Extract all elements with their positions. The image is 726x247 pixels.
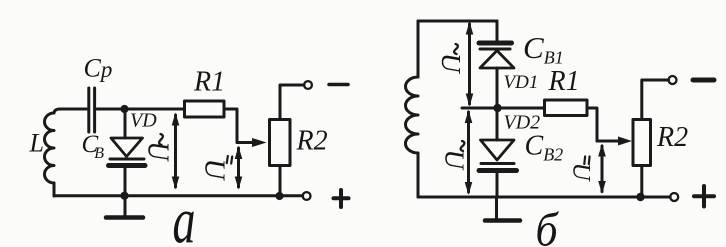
terminal plus (a): [303, 192, 311, 200]
wire R1 to wiper (b): [587, 108, 597, 141]
wire R2 top to minus terminal: [280, 85, 304, 120]
svg-text:U: U: [199, 159, 231, 182]
varicap VD1 / CB1 : top wire: [496, 21, 499, 41]
annotation arrow U= (b): [598, 144, 606, 195]
wire R2 top to minus terminal (b): [642, 80, 669, 120]
svg-text:Cp: Cp: [84, 54, 113, 83]
bottom rail (a): [54, 194, 303, 197]
plus sign (b): [694, 186, 714, 207]
svg-text:CВ2: CВ2: [525, 131, 564, 165]
wire R2 bottom to rail (b): [640, 166, 643, 198]
wire coil bottom to rail (b): [417, 153, 420, 197]
minus sign (b): [693, 78, 714, 83]
terminal minus (b): [669, 76, 677, 84]
bottom rail (b): [418, 196, 670, 199]
annotation arrow U~ (a): [172, 113, 180, 190]
svg-text:R1: R1: [548, 66, 580, 97]
terminal plus (b): [670, 193, 678, 201]
wire VD1 to node to VD2: [496, 68, 499, 140]
annotation arrow U~ upper (b): [466, 22, 474, 107]
potentiometer R2 (b): [633, 120, 651, 166]
annotation arrow U~ lower (b): [465, 110, 473, 195]
inductor (b): [405, 77, 418, 153]
label U~ (a): [141, 134, 174, 163]
svg-text:VD: VD: [130, 110, 157, 132]
resistor R1 (a): [185, 101, 225, 117]
varicap VD1 cathode bar: [480, 48, 510, 51]
node junction dot: [120, 105, 128, 113]
annotation arrow U= (a): [235, 146, 243, 190]
wire coil-top to Cp: [59, 108, 86, 111]
resistor R1 (b): [545, 100, 588, 116]
svg-text:U: U: [568, 163, 595, 183]
svg-text:L: L: [29, 129, 44, 158]
varicap VD / CB : anode wire: [124, 109, 127, 138]
left wire down to coil (b): [417, 21, 420, 77]
wire Cp to R1 (top node wire): [97, 108, 185, 111]
wiper arrow into R2 (a): [237, 138, 267, 147]
wire VD2 to rail: [496, 173, 499, 198]
potentiometer R2 (a): [270, 120, 291, 166]
top wire (b): [418, 20, 497, 23]
varicap VD2 cathode bar: [481, 162, 514, 165]
ground (b): [485, 197, 520, 221]
capacitor Cp: [89, 88, 95, 132]
svg-text:a: a: [173, 186, 196, 247]
minus sign (a): [329, 83, 348, 87]
svg-text:CВ: CВ: [82, 131, 105, 162]
junction dot diode-rail (a): [120, 192, 128, 200]
svg-text:U: U: [440, 150, 470, 171]
svg-text:R1: R1: [193, 67, 225, 98]
varicap VD triangle: [111, 138, 143, 157]
ground (a): [106, 196, 143, 218]
svg-text:VD1: VD1: [504, 72, 539, 93]
node wire to R1 (b): [462, 107, 545, 110]
varicap cathode wire: [124, 168, 127, 197]
terminal minus (a): [304, 81, 312, 89]
svg-text:CВ1: CВ1: [523, 30, 564, 68]
wire R1 to wiper: [224, 109, 237, 143]
varicap CB2 capacitor plate: [479, 168, 517, 173]
varicap CB capacitor plate: [109, 163, 146, 168]
node junction dot (b): [493, 104, 501, 112]
junction dot R2-rail (a): [275, 192, 283, 200]
inductor L: [45, 109, 60, 196]
wire R2 bottom to rail: [279, 166, 282, 197]
svg-text:б: б: [536, 203, 560, 247]
label U= (b): [568, 157, 595, 183]
svg-text:U: U: [436, 53, 466, 74]
wiper arrow into R2 (b): [597, 137, 632, 146]
svg-text:R2: R2: [656, 122, 688, 153]
varicap VD2 triangle: [481, 140, 515, 160]
svg-text:R2: R2: [296, 126, 328, 157]
varicap CB1 capacitor plate: [479, 41, 512, 46]
varicap VD cathode bar: [110, 158, 144, 161]
label U~ upper (b): [436, 44, 466, 74]
svg-text:U: U: [141, 142, 174, 163]
varicap VD1 triangle: [480, 51, 514, 69]
label U~ lower (b): [440, 141, 470, 171]
junction dot R2-rail (b): [636, 193, 644, 201]
plus sign (a): [334, 190, 349, 207]
label U= (a): [199, 156, 233, 182]
